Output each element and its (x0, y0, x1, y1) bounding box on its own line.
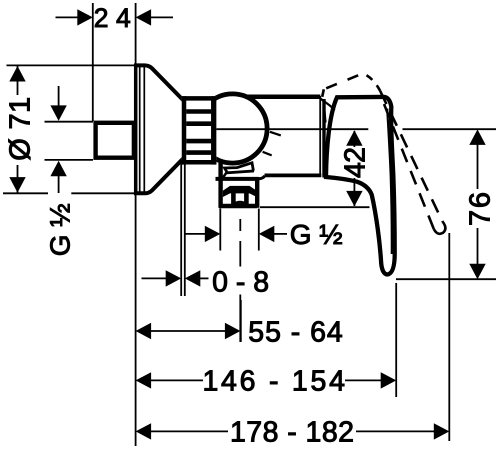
aerator wedge below sphere (225, 163, 254, 173)
dimension 55-64 extension line (240, 300, 242, 342)
handle raised position (dashed) (322, 73, 445, 234)
G1/2 left arrow up (50, 161, 66, 177)
handle crease line (387, 109, 392, 255)
dimension 42 arrow up (346, 130, 362, 146)
dimension 146-154 extension line (395, 283, 397, 397)
dimension D71 arrow down (9, 177, 25, 193)
collar ribs (186, 112, 211, 153)
cap detail tick (325, 111, 326, 123)
dimension 178-182 arrow left (136, 423, 152, 439)
joint stub thick (322, 99, 325, 178)
svg-text:76: 76 (465, 192, 496, 226)
sphere detail tick lower (263, 152, 272, 156)
dimension 0-8 arrow left (166, 270, 182, 286)
dimension 76 dim line (477, 143, 479, 265)
nut inner facet line right (244, 193, 249, 206)
dimension 146-154 dim line (151, 379, 382, 381)
dimension D71 bottom extension line right part (71, 192, 136, 194)
G1/2 left dim line + ticks (45, 86, 94, 193)
escutcheon face (thick) (134, 64, 138, 195)
svg-text:178 - 182: 178 - 182 (230, 417, 354, 449)
dimension D71 bottom extension line (3, 192, 48, 194)
dimension 24 dim line (56, 16, 174, 18)
escutcheon bottom edge / cone (134, 158, 184, 194)
dimension 24 left extension line (92, 3, 94, 121)
valve sphere (198, 94, 267, 163)
inlet pipe (96, 123, 134, 158)
G1/2 right dimension (185, 233, 287, 235)
G1/2 left arrow down (50, 105, 66, 121)
dimension D71 arrow up (9, 66, 25, 82)
escutcheon top edge / cone (134, 65, 184, 101)
dimension 0-8 dim line (142, 277, 209, 279)
dimension 24 arrow right (136, 9, 152, 25)
dimension 55-64 arrow right (225, 323, 241, 339)
dimension 42 (260, 131, 370, 207)
outlet center line (dash-dot) (239, 219, 241, 342)
body top edge (245, 95, 320, 100)
dimension 0-8 extension line B (184, 160, 186, 296)
dimension 178-182 dim line (151, 430, 435, 432)
svg-text:146 - 154: 146 - 154 (202, 366, 345, 398)
outlet nipple extension right (258, 209, 260, 251)
dimension D71 dim line (17, 66, 19, 193)
nut inner facet line left (231, 193, 236, 206)
knurled collar (covers sphere left part) (182, 96, 217, 165)
dimension 178-182 arrow right (434, 423, 450, 439)
dimension 0-8 extension line A (180, 160, 182, 296)
hex nut chamfer band (223, 186, 257, 197)
nut middle facet bottom arc (234, 202, 247, 204)
center line right segment (403, 128, 496, 130)
dimension 42 arrow down (346, 191, 362, 207)
svg-text:42: 42 (340, 147, 372, 178)
nut bottom edge (219, 204, 257, 209)
handle (solid) (326, 97, 395, 275)
body right edge thin (319, 96, 321, 175)
outlet nipple extension left (219, 209, 221, 251)
svg-text:Ø 71: Ø 71 (5, 95, 37, 161)
dimension 0-8 arrow right (185, 270, 201, 286)
G1/2 right arrow right (259, 226, 275, 242)
body bottom edge left (216, 177, 259, 181)
dimension 146-154 arrow left (136, 372, 152, 388)
sphere detail tick upper (270, 132, 281, 136)
escutcheon rim line 2 (143, 66, 145, 192)
G1/2 right arrow left (205, 226, 221, 242)
outlet flange right (255, 177, 259, 208)
body bottom edge right (265, 173, 322, 177)
dimension 55-64 arrow left (136, 323, 152, 339)
body bottom step (259, 176, 265, 179)
dimension 24 arrow left (77, 9, 93, 25)
svg-text:55 - 64: 55 - 64 (248, 316, 343, 348)
dimension 55-64 dim line (151, 330, 227, 332)
dimension 76 bottom extension line (396, 278, 496, 280)
dimension D71 top extension line (7, 64, 138, 66)
center line (valve axis) (212, 128, 368, 130)
datum extension line (escutcheon face plane) (135, 3, 137, 446)
svg-text:G ½: G ½ (45, 203, 76, 256)
outlet flange left (218, 162, 222, 208)
wedge left foot (223, 173, 227, 178)
dimension 146-154 arrow right (381, 372, 397, 388)
dimension 178-182 extension line (448, 233, 450, 441)
dimension 76 arrow down (469, 264, 485, 280)
cap seam curve (321, 99, 335, 111)
dimension 76 arrow up (469, 129, 485, 145)
svg-text:G ½: G ½ (290, 219, 343, 250)
escutcheon rim line 1 (139, 66, 141, 192)
svg-text:0 - 8: 0 - 8 (212, 266, 269, 298)
